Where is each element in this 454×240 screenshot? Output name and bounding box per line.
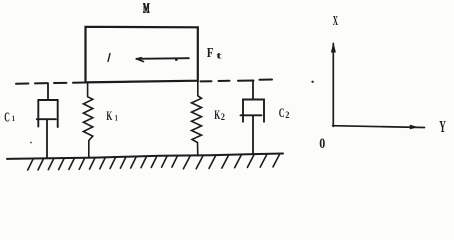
equilibrium dashed line right	[201, 80, 212, 82]
Y axis arrowhead	[410, 125, 418, 130]
svg-text:C: C	[279, 106, 285, 120]
svg-text:X: X	[333, 13, 338, 28]
stray ink speck above ground	[30, 142, 32, 144]
svg-text:F: F	[207, 45, 214, 60]
svg-text:2: 2	[221, 112, 226, 122]
svg-text:t: t	[216, 51, 221, 61]
damper C1 top rod	[47, 83, 49, 100]
svg-text:1: 1	[12, 113, 15, 123]
svg-text:C: C	[4, 109, 10, 124]
mass M rectangle	[86, 27, 198, 83]
svg-text:K: K	[214, 107, 221, 122]
velocity mark i inside mass	[108, 54, 110, 62]
damper C2 top rod	[252, 81, 254, 100]
Y axis horizontal line	[333, 126, 425, 128]
X axis vertical line	[332, 44, 334, 127]
svg-text:1: 1	[115, 112, 118, 122]
X axis arrowhead	[331, 42, 336, 53]
damper C1 bottom rod	[46, 119, 48, 158]
svg-text:Y: Y	[439, 117, 446, 136]
damper C1 cylinder	[38, 100, 57, 127]
ground hatching	[28, 154, 280, 170]
stray ink dot left of axes	[311, 81, 313, 83]
equilibrium dashed line left	[16, 83, 86, 84]
force arrow inside mass (pointing left)	[136, 57, 188, 60]
damper C1 piston	[37, 118, 56, 120]
svg-text:2: 2	[285, 110, 290, 120]
damper C2 piston	[241, 114, 262, 116]
svg-text:K: K	[106, 109, 112, 123]
damper C2 cylinder	[243, 100, 264, 122]
spring K1	[83, 83, 92, 158]
svg-text:0: 0	[319, 136, 325, 152]
spring K2	[192, 81, 202, 156]
svg-text:M: M	[143, 2, 149, 17]
damper C2 bottom rod	[252, 115, 254, 154]
ground line	[7, 154, 283, 159]
